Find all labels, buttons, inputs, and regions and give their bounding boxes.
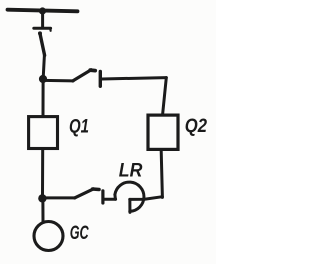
wire: tick to coil LR: [104, 198, 115, 201]
wire: Q1 bottom to node B: [41, 150, 44, 196]
svg-text:LR: LR: [119, 160, 143, 182]
svg-text:Q1: Q1: [69, 117, 89, 138]
wire: left vertical to Q1: [43, 55, 44, 115]
svg-text:Q2: Q2: [185, 116, 208, 137]
disconnect switch S end tick: [49, 29, 51, 31]
coil LR bottom stub: [128, 199, 131, 212]
wire: node B down to machine GC: [41, 203, 44, 222]
wire: branch from node B to lower contact: [43, 196, 76, 199]
node B junction dot: [38, 194, 46, 202]
contactor coil box Q1: [29, 117, 58, 149]
wire: drop into Q2 top: [163, 78, 167, 115]
contactor coil box Q2: [148, 115, 178, 149]
supply bus line: [8, 10, 78, 12]
disconnect switch S fixed contact bar: [34, 27, 51, 30]
svg-text:GC: GC: [70, 222, 90, 244]
lower NO contact blade: [75, 189, 94, 198]
coil LR loop arc: [115, 182, 144, 211]
wire: stub from bus to switch fixed contact: [41, 11, 44, 28]
upper NO contact blade tip: [90, 68, 95, 72]
disconnect switch S blade tip blob: [38, 31, 42, 35]
node: bus tap junction dot: [39, 7, 46, 14]
machine GC circle: [34, 222, 63, 251]
lower NO contact fixed terminal tick: [101, 191, 104, 203]
wire: branch from node A to upper contact: [43, 79, 73, 83]
upper NO contact fixed terminal tick: [99, 72, 102, 87]
wire: right riser up to Q2 bottom: [161, 151, 162, 197]
wire: coil LR to right riser: [130, 197, 163, 200]
coil LR joining jog: [113, 195, 117, 200]
wire: top run to Q2: [102, 78, 166, 79]
upper NO contact blade: [73, 70, 91, 81]
lower NO contact blade tip: [93, 187, 99, 191]
disconnect switch S blade: [40, 33, 45, 55]
node A junction dot: [39, 75, 47, 83]
